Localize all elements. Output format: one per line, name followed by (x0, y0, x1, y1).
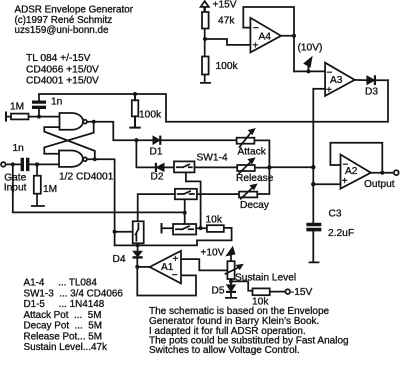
svg-text:Attack Pot ... 5M: Attack Pot ... 5M (24, 310, 102, 321)
svg-text:Switches to allow Voltage Cont: Switches to allow Voltage Control. (149, 345, 300, 356)
svg-text:D2: D2 (151, 172, 164, 183)
svg-text:+10V: +10V (200, 248, 224, 259)
svg-text:-15V: -15V (291, 287, 313, 298)
svg-text:+: + (342, 176, 348, 187)
svg-text:−: − (327, 68, 333, 79)
svg-text:100k: 100k (216, 61, 239, 72)
svg-text:+: + (253, 40, 259, 51)
svg-text:(10V): (10V) (298, 42, 323, 53)
svg-text:TL 084 +/-15V: TL 084 +/-15V (26, 53, 91, 64)
svg-text:Sustain Level: Sustain Level (235, 272, 296, 283)
svg-text:1n: 1n (51, 97, 62, 108)
svg-text:D5: D5 (212, 285, 225, 296)
svg-text:−: − (343, 159, 349, 170)
svg-text:2.2uF: 2.2uF (328, 228, 354, 239)
svg-text:10k: 10k (206, 214, 223, 225)
svg-text:D1: D1 (150, 146, 163, 157)
svg-text:CD4001 +15/0V: CD4001 +15/0V (26, 75, 99, 86)
svg-text:+: + (173, 254, 179, 265)
svg-text:+: + (326, 85, 332, 96)
svg-text:47k: 47k (218, 15, 235, 26)
svg-text:SW1-4: SW1-4 (197, 152, 228, 163)
svg-text:D1-5 ... 1N4148: D1-5 ... 1N4148 (24, 299, 105, 310)
svg-text:+15V: +15V (213, 0, 237, 11)
svg-text:uzs159@uni-bonn.de: uzs159@uni-bonn.de (15, 25, 110, 36)
svg-text:100k: 100k (139, 110, 162, 121)
svg-text:Decay: Decay (240, 200, 270, 211)
svg-text:A4: A4 (259, 31, 272, 42)
svg-text:C3: C3 (329, 208, 342, 219)
svg-text:D3: D3 (365, 87, 378, 98)
svg-text:1n: 1n (13, 143, 24, 154)
svg-text:D4: D4 (113, 254, 126, 265)
svg-text:Sustain Level...47k: Sustain Level...47k (24, 342, 108, 353)
svg-text:−: − (172, 270, 178, 281)
svg-text:Input: Input (4, 183, 27, 194)
svg-text:Release: Release (236, 173, 274, 184)
svg-text:1/2 CD4001: 1/2 CD4001 (59, 172, 114, 183)
svg-text:1M: 1M (43, 184, 57, 195)
svg-text:SW1-3 ... 3/4 CD4066: SW1-3 ... 3/4 CD4066 (24, 288, 124, 299)
svg-text:Decay Pot ... 5M: Decay Pot ... 5M (24, 321, 102, 332)
svg-text:−: − (253, 23, 259, 34)
svg-text:Attack: Attack (238, 146, 267, 157)
svg-text:Release Pot... 5M: Release Pot... 5M (24, 331, 103, 342)
svg-text:Output: Output (364, 179, 395, 190)
svg-text:1M: 1M (10, 102, 24, 113)
svg-text:CD4066 +15/0V: CD4066 +15/0V (26, 64, 99, 75)
svg-text:A1-4 ... TL084: A1-4 ... TL084 (24, 278, 98, 289)
